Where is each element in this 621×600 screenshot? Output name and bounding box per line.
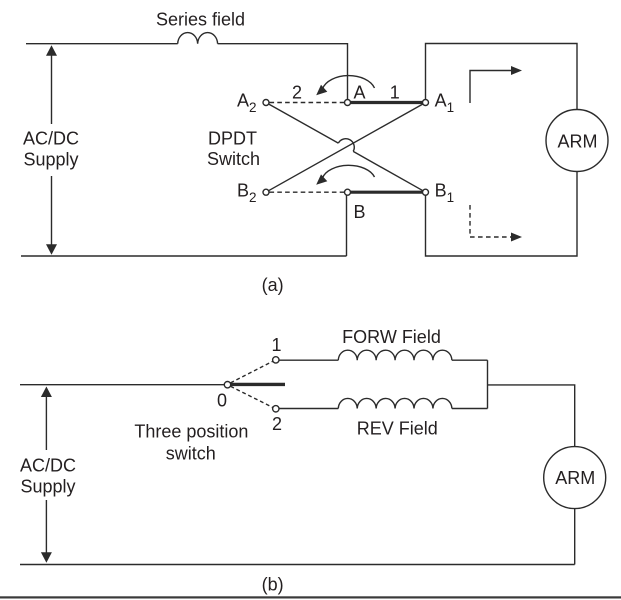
switch blade B-B1 (thick closed contact) [350, 191, 424, 194]
node A1 contact circle [423, 100, 429, 106]
wire: armature loop (a) bottom - B1 down, across to ARM [426, 172, 578, 257]
wire: REV field to right junction [452, 408, 488, 410]
motor armature ARM (b) [544, 447, 606, 509]
wire: contact 1 to FORW field [279, 359, 338, 361]
wire: diagonal A2 to B1 with crossover hop [269, 104, 423, 191]
node: contact 2 circle [273, 406, 279, 412]
wire: circuit (b) bottom supply wire [20, 564, 575, 566]
node B1 contact circle [423, 189, 429, 195]
wire: dashed throw position B2 to B [270, 191, 345, 193]
wire: circuit (a) bottom supply wire, up to switch pole B [21, 195, 347, 256]
wire: contact 2 to REV field [279, 408, 338, 410]
svg-text:Supply: Supply [23, 150, 78, 170]
node B2 contact circle [263, 189, 269, 195]
svg-text:B: B [354, 202, 366, 222]
svg-text:DPDT: DPDT [208, 129, 257, 149]
svg-text:B2: B2 [237, 180, 257, 205]
three position switch blade (thick, position 0) [231, 383, 285, 386]
motor armature ARM (a) [546, 110, 608, 172]
arrowhead of lower rotation arrow [316, 174, 327, 184]
wire: circuit (a) top supply wire right of series field, down to switch pole A [218, 44, 348, 100]
node A pole circle [345, 100, 351, 106]
inductor FORW Field coil [338, 350, 452, 360]
wire: dashed pivot to contact 2 [231, 386, 273, 407]
svg-text:(b): (b) [262, 575, 284, 595]
svg-text:Supply: Supply [20, 477, 75, 497]
curved rotation arrow above pole B [323, 165, 375, 177]
inductor REV Field coil [338, 398, 452, 408]
svg-text:1: 1 [390, 83, 400, 103]
wire: circuit (a) top supply wire left of series field [26, 43, 178, 45]
wire: ARM (b) to bottom supply wire [574, 509, 576, 565]
wire: crossover hop arc on A2-B1 diagonal [338, 139, 354, 152]
node B pole circle [345, 189, 351, 195]
wire: dashed throw position A2 to A [270, 102, 345, 104]
svg-text:0: 0 [217, 391, 227, 411]
supply arrow (b): double-headed AC/DC supply arrow [41, 387, 52, 563]
wire: junction to ARM (b) [488, 385, 575, 447]
wire: dashed pivot to contact 1 [231, 361, 273, 383]
switch blade A-A1 (thick closed contact) [350, 101, 424, 104]
svg-text:A: A [354, 83, 366, 103]
svg-text:AC/DC: AC/DC [20, 456, 76, 476]
svg-text:Switch: Switch [207, 149, 260, 169]
svg-text:REV Field: REV Field [357, 418, 438, 438]
bottom rule [0, 596, 621, 598]
arrowhead of solid current arrow [511, 66, 522, 75]
svg-text:2: 2 [292, 83, 302, 103]
wire: circuit (b) top supply wire to switch pivot [20, 384, 224, 386]
svg-text:A1: A1 [435, 91, 455, 116]
arrowhead of dashed current arrow [511, 233, 522, 242]
inductor L1 Series field coil [178, 33, 218, 44]
arrowhead of upper rotation arrow [316, 85, 327, 95]
curved rotation arrow above pole A [323, 76, 375, 89]
current direction arrow (dashed L-shape) in armature loop [470, 205, 511, 237]
wire: armature loop (a) top - A1 up, across to ARM [426, 44, 578, 110]
svg-text:switch: switch [166, 444, 216, 464]
svg-text:FORW Field: FORW Field [342, 327, 441, 347]
svg-text:Series field: Series field [156, 10, 245, 30]
current direction arrow (solid L-shape) in armature loop [470, 71, 512, 104]
svg-text:1: 1 [271, 335, 281, 355]
supply arrow (a): double-headed AC/DC supply arrow [46, 45, 57, 254]
wire: diagonal B2 to A1 (straight through crossing) [269, 104, 423, 191]
svg-text:2: 2 [272, 414, 282, 434]
node: contact 1 circle [273, 357, 279, 363]
svg-text:Three position: Three position [134, 422, 248, 442]
wire: right junction vertical joining both field branches [487, 360, 489, 408]
wire: FORW field to right junction [452, 359, 488, 361]
svg-text:ARM: ARM [558, 132, 598, 152]
node A2 contact circle [263, 100, 269, 106]
svg-text:AC/DC: AC/DC [23, 129, 79, 149]
svg-text:ARM: ARM [555, 468, 595, 488]
svg-text:B1: B1 [435, 180, 455, 205]
svg-text:A2: A2 [237, 91, 257, 116]
node: switch pivot 0 circle [224, 382, 230, 388]
svg-text:(a): (a) [262, 275, 284, 295]
